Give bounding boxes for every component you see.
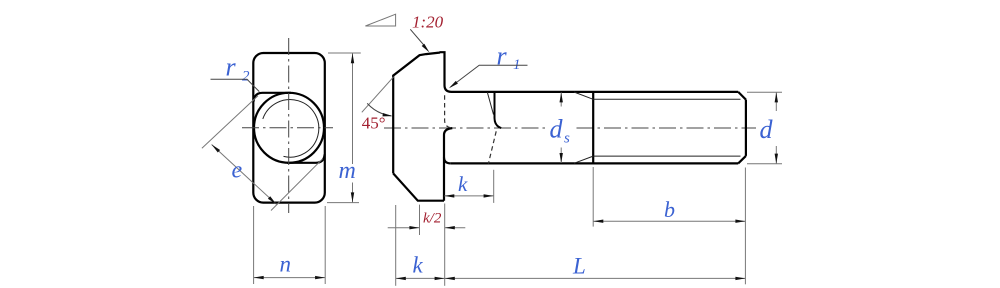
m extension line bottom <box>327 202 359 204</box>
svg-text:m: m <box>339 158 356 184</box>
leader r1 <box>451 65 528 87</box>
bolt end chamfer top <box>738 92 746 100</box>
svg-text:d: d <box>550 115 564 144</box>
neck k arrows <box>444 194 454 197</box>
m dimension line <box>352 53 354 202</box>
b extension line left <box>592 167 594 227</box>
thread minor dia bottom <box>593 155 740 157</box>
svg-text:2: 2 <box>242 69 250 85</box>
square neck hidden corner (dashed) <box>488 131 496 163</box>
head bottom chamfer and flat <box>393 173 444 200</box>
neck k extension line <box>493 170 495 203</box>
square neck corner thick edge <box>495 92 502 128</box>
e dimension line <box>212 145 277 205</box>
L dimension line <box>445 277 746 279</box>
horizontal centerline of end view <box>242 127 333 129</box>
e extension line B <box>271 159 323 211</box>
m arrow bottom <box>351 192 354 202</box>
hidden head face (dashed) <box>445 95 452 128</box>
k/2 extension line left <box>419 205 421 235</box>
taper symbol triangle <box>365 14 395 26</box>
e extension line A <box>202 96 258 149</box>
leader r2 <box>211 79 260 91</box>
white mask under d_s label <box>546 112 576 144</box>
neck k dimension line <box>444 195 493 197</box>
d dimension line <box>775 92 777 163</box>
white mask under d label <box>757 114 777 143</box>
thread runout diagonal top <box>574 92 593 99</box>
arrow r1 <box>449 81 458 88</box>
L arrows <box>445 277 455 280</box>
bolt end face <box>745 100 747 156</box>
k/2 arrows <box>409 226 419 229</box>
n extension lines <box>254 206 326 284</box>
k/2 dimension tails <box>388 227 466 229</box>
svg-text:L: L <box>572 253 586 278</box>
thread root circle (thin 3/4 circle) <box>263 100 319 158</box>
svg-text:r: r <box>497 42 508 71</box>
45 deg arc <box>367 103 391 116</box>
bottom k arrows <box>396 277 406 280</box>
bottom k extension line left <box>395 205 397 286</box>
m extension line top <box>328 52 361 54</box>
thread start line <box>592 92 594 163</box>
b arrows <box>593 220 603 223</box>
svg-text:n: n <box>280 252 292 277</box>
45 deg arrow <box>383 113 393 116</box>
arrow 1:20 <box>422 44 430 53</box>
shared extension line at head face <box>444 204 446 286</box>
head lower face with curve to centerline and fillet <box>444 128 452 201</box>
b dimension line <box>593 220 745 222</box>
svg-text:k/2: k/2 <box>423 210 442 226</box>
svg-text:e: e <box>232 158 243 184</box>
ds dimension line <box>560 92 562 163</box>
e arrow lower <box>268 196 277 204</box>
main centerline of bolt <box>384 127 756 129</box>
svg-text:k: k <box>458 172 468 196</box>
svg-text:b: b <box>664 197 675 222</box>
bottom-right shoulder tangent with r2 fillet <box>287 154 325 163</box>
svg-text:k: k <box>413 253 424 278</box>
bottom k dimension line <box>396 277 445 279</box>
shank circle (thick) <box>254 93 324 163</box>
top-left shoulder tangent with r2 fillet <box>254 93 291 102</box>
svg-text:r: r <box>226 53 237 82</box>
head end-view outline (rounded rectangle) <box>253 53 324 203</box>
ds arrow bottom <box>560 153 563 163</box>
thread runout diagonal bottom <box>574 156 593 163</box>
fillet r1 lower <box>444 158 451 164</box>
svg-text:d: d <box>760 115 774 144</box>
bolt end chamfer bottom <box>738 156 746 164</box>
shank top line <box>452 91 739 93</box>
n arrow right <box>315 276 325 279</box>
head outline side view <box>393 52 451 173</box>
thread minor dia top <box>593 98 740 100</box>
45 deg construction line <box>362 77 394 113</box>
d extension lines <box>747 92 782 164</box>
svg-text:45°: 45° <box>362 114 386 133</box>
m arrow top <box>351 53 354 63</box>
n arrow left <box>254 276 264 279</box>
e arrow upper <box>212 145 221 153</box>
svg-text:1:20: 1:20 <box>412 13 444 32</box>
vertical centerline of end view <box>288 38 290 213</box>
leader 1:20 <box>410 29 425 47</box>
svg-text:s: s <box>564 131 570 147</box>
ds arrow top <box>560 92 563 102</box>
n dimension line <box>254 277 326 279</box>
square neck corner thin edge <box>487 92 493 114</box>
d arrow top <box>775 92 778 102</box>
d arrow bottom <box>775 154 778 164</box>
shank bottom line <box>451 162 738 164</box>
right extension line at bolt end <box>744 168 746 285</box>
